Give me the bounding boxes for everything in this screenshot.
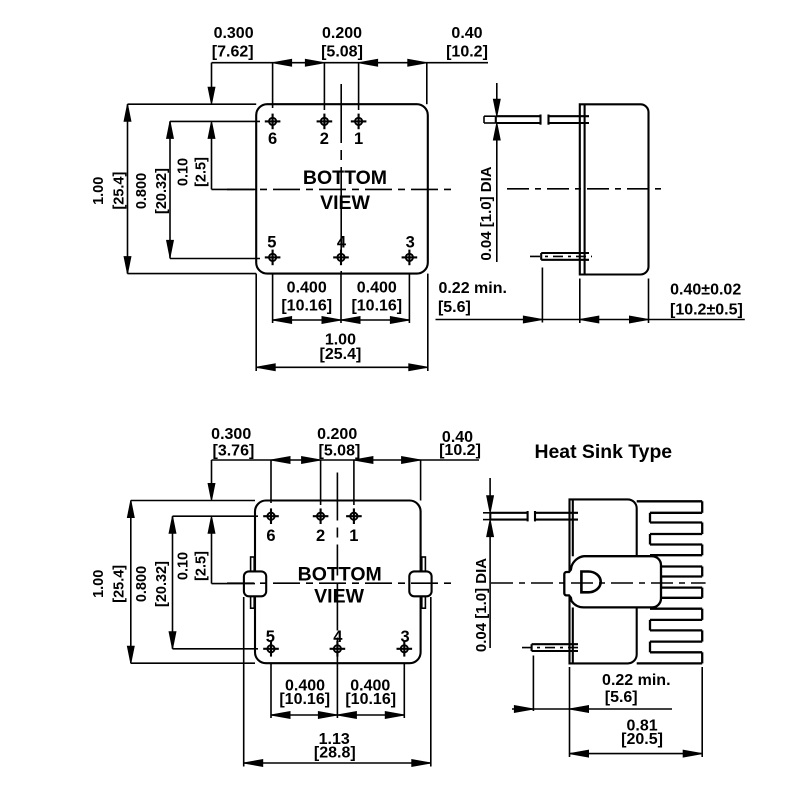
svg-text:[10.16]: [10.16] <box>279 691 330 708</box>
dimension text 0.300 [7.62] <box>212 25 254 60</box>
svg-text:0.800: 0.800 <box>134 173 150 209</box>
svg-text:1.00: 1.00 <box>91 177 107 205</box>
left mounting tab plate <box>251 557 255 608</box>
heat sink view top pin <box>483 511 578 521</box>
mounting clamp tongue <box>564 556 661 607</box>
bottom 0.400 dimensions (hs) <box>271 663 404 718</box>
svg-text:[10.2]: [10.2] <box>446 44 488 61</box>
dimension text 0.22 min [5.6] (hs) <box>602 672 670 706</box>
svg-text:[20.32]: [20.32] <box>154 168 170 214</box>
heat sink view centerline <box>491 582 706 584</box>
svg-text:0.04 [1.0] DIA: 0.04 [1.0] DIA <box>473 558 490 652</box>
svg-text:[10.16]: [10.16] <box>351 297 402 314</box>
svg-text:[2.5]: [2.5] <box>194 551 210 581</box>
svg-text:4: 4 <box>337 234 347 252</box>
top dimension line (hs) <box>212 457 480 505</box>
svg-text:[20.5]: [20.5] <box>621 731 663 748</box>
screw head (D shape) <box>581 572 600 593</box>
svg-text:5: 5 <box>266 628 275 646</box>
pin 6 (hs) <box>263 508 279 545</box>
pin 4 (hs) <box>330 628 346 657</box>
svg-text:1: 1 <box>349 527 358 545</box>
heat sink side view package body <box>570 499 637 663</box>
svg-text:0.40±0.02: 0.40±0.02 <box>670 282 741 299</box>
side view horizontal centerline <box>507 188 662 190</box>
left 0.800 dimension (hs) <box>169 516 258 649</box>
svg-text:[5.6]: [5.6] <box>438 299 471 316</box>
svg-text:2: 2 <box>316 527 325 545</box>
pin 3 <box>402 234 418 266</box>
dimension text 0.400 [10.16] right <box>351 279 402 314</box>
pin 5 <box>265 234 281 266</box>
dimension text 0.40 [10.2] <box>446 25 488 60</box>
dimension text 0.800 [20.32] (rotated) <box>134 168 170 214</box>
0.22 min / 0.40 dimension line <box>436 268 745 324</box>
dimension text 0.400 [10.16] right (hs) <box>345 678 396 708</box>
right mounting tab plate <box>422 557 426 608</box>
dimension text 0.10 [2.5] (rotated) <box>176 157 210 187</box>
BOTTOM VIEW label (hs) <box>298 564 382 608</box>
svg-text:[5.6]: [5.6] <box>605 689 638 706</box>
svg-text:3: 3 <box>401 628 410 646</box>
right clamp bump <box>409 571 431 596</box>
pin 4 <box>333 234 349 266</box>
dimension text 0.10 [2.5] (hs, rotated) <box>176 551 210 581</box>
svg-text:[10.16]: [10.16] <box>345 691 396 708</box>
pin 5 (hs) <box>263 628 279 657</box>
svg-text:[5.08]: [5.08] <box>319 443 361 460</box>
svg-text:0.800: 0.800 <box>134 566 150 602</box>
svg-text:[10.2±0.5]: [10.2±0.5] <box>670 301 743 318</box>
horizontal centerline (heat-sink bottom view) <box>227 582 452 584</box>
dimension text 1.00 [25.4] (hs, rotated) <box>91 565 128 603</box>
svg-text:6: 6 <box>266 527 275 545</box>
heat sink fins <box>637 501 703 663</box>
dimension text 0.200 [5.08] (hs) <box>317 426 360 460</box>
dimension text 0.40±0.02 [10.2±0.5] <box>670 282 743 319</box>
svg-text:0.400: 0.400 <box>287 279 327 296</box>
svg-text:1.00: 1.00 <box>91 570 107 598</box>
svg-text:VIEW: VIEW <box>314 586 364 608</box>
vertical centerline (heat-sink bottom view) <box>336 473 338 664</box>
dimension text 0.04 [1.0] DIA (hs, rotated) <box>473 558 490 652</box>
svg-text:4: 4 <box>333 628 343 646</box>
svg-text:BOTTOM: BOTTOM <box>298 564 382 586</box>
heat sink view bottom pin <box>522 644 580 651</box>
package outline (bottom view, heat-sink drawing) <box>255 501 421 664</box>
svg-text:0.400: 0.400 <box>357 279 397 296</box>
bottom 1.13 dimension (hs) <box>244 597 431 767</box>
svg-text:0.200: 0.200 <box>322 25 362 42</box>
vertical centerline through pins 2-4 <box>340 84 342 273</box>
dimension text 1.13 [28.8] (hs) <box>314 731 356 762</box>
pin 2 (hs) <box>313 508 329 545</box>
svg-text:0.40: 0.40 <box>451 25 482 42</box>
svg-text:[10.2]: [10.2] <box>439 442 481 459</box>
0.10 leader (hs) <box>208 460 255 584</box>
side view top pin <box>484 115 589 125</box>
svg-text:2: 2 <box>320 130 329 148</box>
svg-text:3: 3 <box>406 234 415 252</box>
0.04 DIA dimension (hs) <box>487 478 494 648</box>
0.04 DIA dimension <box>493 83 500 262</box>
svg-text:5: 5 <box>267 234 276 252</box>
left 1.00 dimension (hs) <box>127 501 255 664</box>
dimension text 0.81 [20.5] (hs) <box>621 718 663 748</box>
pin 3 (hs) <box>397 628 413 657</box>
svg-text:[25.4]: [25.4] <box>112 565 128 603</box>
svg-text:[10.16]: [10.16] <box>281 297 332 314</box>
dimension text 0.400 [10.16] left (hs) <box>279 678 330 708</box>
dimension text 0.300 [3.76] (hs) <box>211 426 254 460</box>
svg-text:[3.76]: [3.76] <box>213 443 255 460</box>
0.10 vertical dimension leader <box>208 63 256 190</box>
svg-text:Heat Sink Type: Heat Sink Type <box>535 441 673 463</box>
dimension text 1.00 [25.4] (rotated, left) <box>91 171 128 209</box>
svg-text:[25.4]: [25.4] <box>320 346 362 363</box>
package outline (bottom view, top-left drawing) <box>256 104 428 273</box>
svg-text:1: 1 <box>354 130 363 148</box>
svg-text:[20.32]: [20.32] <box>154 561 170 607</box>
horizontal centerline of package <box>227 188 453 190</box>
dimension text 0.04 [1.0] DIA (rotated) <box>478 166 495 260</box>
side view bottom pin <box>530 253 592 260</box>
dimension text 0.40 [10.2] (hs) <box>439 429 481 459</box>
svg-text:BOTTOM: BOTTOM <box>303 167 387 189</box>
svg-text:[7.62]: [7.62] <box>212 44 254 61</box>
dimension text 1.00 [25.4] bottom <box>320 332 362 363</box>
svg-text:0.04 [1.0] DIA: 0.04 [1.0] DIA <box>478 166 495 260</box>
dimension text 0.400 [10.16] left <box>281 279 332 314</box>
left 1.00 dimension <box>124 104 256 273</box>
svg-text:VIEW: VIEW <box>320 192 370 214</box>
top dimension line with extension lines <box>212 59 489 110</box>
svg-text:0.22 min.: 0.22 min. <box>438 280 506 297</box>
0.22 min dimension (hs) <box>512 656 672 713</box>
svg-text:[28.8]: [28.8] <box>314 745 356 762</box>
bottom 0.400 dimensions <box>273 274 410 324</box>
0.81 dimension (hs) <box>570 667 703 757</box>
pin 2 <box>317 114 333 148</box>
svg-text:6: 6 <box>268 130 277 148</box>
left 0.800 dimension <box>167 121 260 258</box>
svg-text:0.200: 0.200 <box>317 426 357 443</box>
svg-text:0.22 min.: 0.22 min. <box>602 672 670 689</box>
pin 1 (hs) <box>346 508 362 545</box>
left clamp bump <box>244 571 266 596</box>
dimension text 0.800 [20.32] (hs, rotated) <box>134 561 170 607</box>
dimension text 0.200 [5.08] <box>321 25 363 60</box>
svg-text:[2.5]: [2.5] <box>194 157 210 187</box>
side view package body <box>580 104 649 274</box>
svg-text:[5.08]: [5.08] <box>321 44 363 61</box>
svg-text:0.10: 0.10 <box>176 552 192 580</box>
svg-text:0.10: 0.10 <box>176 158 192 186</box>
dimension text 0.22 min [5.6] <box>438 280 507 316</box>
BOTTOM VIEW label <box>303 167 387 214</box>
svg-text:[25.4]: [25.4] <box>112 171 128 209</box>
pin 6 <box>265 114 281 148</box>
svg-text:0.300: 0.300 <box>214 25 254 42</box>
svg-text:0.300: 0.300 <box>211 426 251 443</box>
pin 1 <box>351 114 367 148</box>
Heat Sink Type title <box>535 441 673 463</box>
bottom 1.00 dimension <box>256 274 428 371</box>
